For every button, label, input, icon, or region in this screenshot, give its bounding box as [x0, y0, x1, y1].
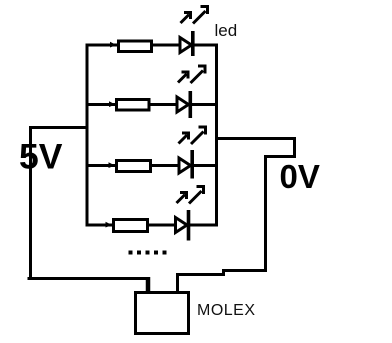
node right bus (cathode bus) [215, 44, 218, 227]
svg-text:0V: 0V [280, 158, 320, 195]
wire branch 2 anode [86, 103, 116, 106]
connector J1 MOLEX [136, 293, 189, 334]
wire branch 3 anode [86, 164, 116, 167]
wire R2 to D2 [151, 103, 178, 106]
wire D2 cathode to right bus [191, 103, 218, 106]
node ellipsis (more branches) [129, 251, 167, 255]
LED D4 light arrows [177, 187, 204, 204]
LED D4 [176, 210, 189, 241]
resistor R3 [117, 161, 151, 172]
svg-text:MOLEX: MOLEX [197, 302, 256, 319]
resistor R1 [119, 41, 152, 52]
resistor R4 [114, 220, 148, 232]
wire branch 4 anode [86, 224, 113, 227]
junction arrow branch 3 [109, 162, 116, 168]
wire R4 to D4 [149, 224, 176, 227]
svg-text:5V: 5V [19, 137, 63, 177]
LED D3 [179, 150, 192, 179]
wire branch 1 anode [86, 44, 118, 47]
junction arrow branch 1 [110, 42, 117, 48]
junction arrow branch 2 [109, 101, 116, 107]
LED D3 light arrows [179, 127, 206, 144]
wire 5V feed horizontal to left bus [31, 126, 89, 129]
LED D2 light arrows [178, 66, 205, 83]
LED D2 [177, 91, 190, 118]
LED D1 light arrows [181, 7, 208, 24]
node left bus (anode bus) [86, 44, 89, 227]
junction arrow branch 4 [106, 222, 113, 228]
wire bottom rail [28, 277, 150, 280]
LED D1 [180, 31, 193, 56]
wire D4 cathode to right bus [189, 224, 218, 227]
wire R1 to D1 [153, 44, 180, 47]
wire D1 cathode to right bus [193, 44, 218, 47]
wire D3 cathode to right bus [193, 164, 218, 167]
wire R3 to D3 [152, 164, 179, 167]
wire 5V vertical down to bottom rail [29, 126, 32, 279]
resistor R2 [117, 100, 150, 111]
svg-text:led: led [215, 21, 238, 40]
wire 0V from right bus down to MOLEX [178, 139, 295, 294]
wire drop into MOLEX pin 1 [146, 277, 151, 293]
